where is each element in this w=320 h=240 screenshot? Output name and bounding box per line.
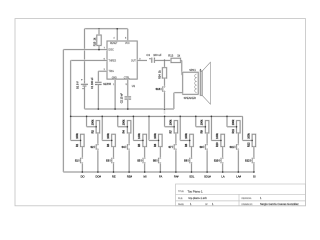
svg-text:RE: RE xyxy=(112,174,116,178)
junction VCC/R15 xyxy=(98,28,100,30)
resistor R15 1k xyxy=(93,29,101,50)
svg-text:FILE:: FILE: xyxy=(178,198,183,200)
svg-text:C3: C3 xyxy=(146,53,150,57)
op-amp U1 NE555 timer body xyxy=(107,41,137,79)
svg-text:PAGE:: PAGE: xyxy=(178,203,184,206)
wire S12 to return bus xyxy=(253,164,255,172)
junction return bus / S10 xyxy=(222,171,224,173)
wire keys bus to R10 xyxy=(211,116,221,140)
junction DISC/R15 xyxy=(98,49,100,51)
potentiometer R2 100k (DO# key) xyxy=(91,119,99,133)
svg-text:100k: 100k xyxy=(91,119,94,125)
junction keys bus / R10 xyxy=(211,116,213,118)
wire R7 to S7 xyxy=(175,133,177,144)
wire R1 to S1 xyxy=(81,147,83,158)
switch S6 xyxy=(153,157,161,163)
wire R6 to S6 xyxy=(159,147,161,158)
wire THRES drop to R1 xyxy=(71,139,81,141)
svg-text:THRES: THRES xyxy=(109,60,117,62)
switch S12 xyxy=(245,157,254,163)
switch S9 xyxy=(200,144,208,150)
wire CTRL pin to C2 xyxy=(127,79,129,97)
svg-text:S11: S11 xyxy=(230,146,235,149)
wire R8 to S8 xyxy=(191,147,193,158)
junction return bus / S2 xyxy=(97,171,99,173)
wire R3 to S3 xyxy=(113,147,115,158)
svg-text:NE555: NE555 xyxy=(103,82,111,86)
wire R10 to S10 xyxy=(222,147,224,158)
wire S9 to return bus xyxy=(206,150,208,172)
svg-text:R12: R12 xyxy=(247,142,250,147)
svg-text:SOL#: SOL# xyxy=(204,174,211,178)
wire keys bus to R2 xyxy=(87,116,97,126)
potentiometer R1 100k (DO key) xyxy=(76,133,84,147)
svg-text:TITLE:: TITLE: xyxy=(178,191,184,193)
wire R2 to S2 xyxy=(97,133,99,144)
wire S11 to return bus xyxy=(237,150,239,172)
ground bus wire xyxy=(85,108,174,110)
wire R13 to speaker xyxy=(181,60,183,75)
svg-text:C1 100 uF: C1 100 uF xyxy=(91,77,94,89)
switch S10 xyxy=(214,157,223,163)
junction return bus / S9 xyxy=(206,171,208,173)
resistor R13 1k xyxy=(168,54,180,63)
junction return bus / S11 xyxy=(237,171,239,173)
svg-text:100k: 100k xyxy=(247,133,250,139)
capacitor C2 10 nF xyxy=(120,93,131,109)
junction keys bus / R6 xyxy=(148,116,150,118)
wire keys bus to R9 xyxy=(196,116,206,126)
junction keys bus / R5 xyxy=(133,116,135,118)
wire R4 to S4 xyxy=(128,133,130,144)
wire S1 to return bus xyxy=(81,164,83,172)
title block xyxy=(176,184,306,206)
wire S6 to return bus xyxy=(159,164,161,172)
svg-text:LA: LA xyxy=(221,174,224,178)
wire R12 to S12 xyxy=(253,147,255,158)
svg-text:SPEAKER: SPEAKER xyxy=(184,96,196,100)
potentiometer R7 100k (FA# key) xyxy=(169,119,177,133)
junction return bus / S6 xyxy=(159,171,161,173)
svg-text:S10: S10 xyxy=(214,160,219,163)
switch S7 xyxy=(168,144,176,150)
switch S8 xyxy=(184,157,192,163)
wire OUT to C3 xyxy=(137,59,147,61)
junction keys bus / R2 xyxy=(86,116,88,118)
capacitor C1 100 uF xyxy=(91,77,102,109)
svg-text:B1 9 V: B1 9 V xyxy=(77,81,80,89)
wire S10 to return bus xyxy=(222,164,224,172)
svg-text:SOL: SOL xyxy=(189,174,195,178)
svg-text:R14: R14 xyxy=(159,74,162,79)
junction THRES/keys bus xyxy=(70,116,72,118)
svg-text:SI: SI xyxy=(253,174,256,178)
wire GND pin to ground bus xyxy=(114,79,116,109)
junction keys bus / R11 xyxy=(226,116,228,118)
keys return bus wire (DISC) xyxy=(63,171,254,173)
potentiometer R6 100k (FA key) xyxy=(154,133,162,147)
switch S3 xyxy=(106,157,114,163)
svg-text:RESET: RESET xyxy=(110,43,118,45)
svg-text:DO#: DO# xyxy=(96,174,102,178)
junction ground/S13 xyxy=(164,108,166,110)
junction return bus / S7 xyxy=(175,171,177,173)
pin stub S13 below ground bus xyxy=(164,109,166,114)
switch S1 xyxy=(75,157,83,163)
switch S11 xyxy=(230,144,239,150)
svg-text:Toy Piano 1: Toy Piano 1 xyxy=(188,190,203,194)
junction keys bus / R7 xyxy=(164,116,166,118)
wire C3 to R13 xyxy=(154,59,171,61)
potentiometer R4 100k (RE# key) xyxy=(123,119,131,133)
potentiometer R3 100k (RE key) xyxy=(107,133,115,147)
switch S13 xyxy=(156,86,165,92)
svg-text:100k: 100k xyxy=(185,133,188,139)
wire S4 to return bus xyxy=(128,150,130,172)
wire TRIG to C1 xyxy=(98,71,107,82)
resistor R14 1k xyxy=(159,60,167,85)
wire keys bus to R3 xyxy=(102,116,112,140)
svg-text:REVISION:: REVISION: xyxy=(242,198,253,200)
svg-text:MI: MI xyxy=(144,174,147,178)
potentiometer R9 100k (SOL# key) xyxy=(201,119,209,133)
svg-text:FA#: FA# xyxy=(174,174,179,178)
wire S7 to return bus xyxy=(175,150,177,172)
junction return bus / S3 xyxy=(113,171,115,173)
wire S13 to ground bus xyxy=(164,92,166,109)
svg-text:100k: 100k xyxy=(154,133,157,139)
junction VCC/RESET xyxy=(116,28,118,30)
potentiometer R8 100k (SOL key) xyxy=(185,133,193,147)
svg-text:100k: 100k xyxy=(138,133,141,139)
svg-text:100k: 100k xyxy=(123,119,126,125)
svg-text:toy-piano-1.sch: toy-piano-1.sch xyxy=(189,196,208,200)
speaker SPK1 8 ohm xyxy=(183,62,211,104)
wire S5 to return bus xyxy=(144,164,146,172)
svg-text:DISC: DISC xyxy=(109,50,115,52)
wire R11 to S11 xyxy=(237,133,239,144)
svg-text:VCC: VCC xyxy=(125,43,130,45)
potentiometer R10 100k (LA key) xyxy=(216,133,224,147)
battery B1 9V xyxy=(77,78,88,109)
switch S5 xyxy=(137,157,145,163)
junction C3/R14 xyxy=(164,60,166,62)
potentiometer R12 100k (SI key) xyxy=(247,133,255,147)
svg-text:C2 10 nF: C2 10 nF xyxy=(120,93,123,104)
junction keys bus / R3 xyxy=(101,116,103,118)
VCC rail wire xyxy=(85,29,128,80)
title block text xyxy=(178,190,299,207)
keys bus wire (THRES) xyxy=(71,116,243,140)
wire S8 to return bus xyxy=(191,164,193,172)
wire keys bus to R7 xyxy=(165,116,175,126)
junction return bus / S1 xyxy=(81,171,83,173)
wire DISC to keys return bus xyxy=(63,50,107,172)
svg-text:100k: 100k xyxy=(107,133,110,139)
junction ground/GND pin xyxy=(114,108,116,110)
svg-text:R13: R13 xyxy=(168,54,173,58)
svg-text:TRIG: TRIG xyxy=(109,71,115,73)
svg-text:S13: S13 xyxy=(156,88,161,91)
potentiometer R11 100k (LA# key) xyxy=(232,119,240,133)
svg-text:100k: 100k xyxy=(232,119,235,125)
svg-text:R15: R15 xyxy=(93,41,96,46)
svg-text:DO: DO xyxy=(81,174,85,178)
wire THRES to keys bus xyxy=(71,60,107,140)
wire keys bus to R8 xyxy=(180,116,190,140)
svg-text:SPK1: SPK1 xyxy=(189,68,196,72)
junction ground/C1 xyxy=(97,108,99,110)
svg-text:100k: 100k xyxy=(76,133,79,139)
potentiometer R5 100k (MI key) xyxy=(138,133,146,147)
svg-text:100k: 100k xyxy=(216,133,219,139)
junction keys bus / R8 xyxy=(179,116,181,118)
wire S3 to return bus xyxy=(113,164,115,172)
junction return bus / S4 xyxy=(128,171,130,173)
switch S2 xyxy=(90,144,98,150)
svg-text:100 uF: 100 uF xyxy=(153,53,162,57)
junction ground/C2 xyxy=(127,108,129,110)
svg-text:100k: 100k xyxy=(169,119,172,125)
svg-text:Sergio García Cuevas González: Sergio García Cuevas González xyxy=(260,202,299,206)
svg-text:RE#: RE# xyxy=(127,174,133,178)
junction keys bus / R9 xyxy=(195,116,197,118)
switch S4 xyxy=(122,144,130,150)
capacitor C3 100 uF xyxy=(146,53,162,63)
svg-text:R11: R11 xyxy=(232,128,235,133)
wire keys bus to R4 xyxy=(118,116,128,126)
wire S2 to return bus xyxy=(97,150,99,172)
junction keys bus / R4 xyxy=(117,116,119,118)
wire speaker return to ground bus xyxy=(174,93,183,109)
wire R9 to S9 xyxy=(206,133,208,144)
wire keys bus to R11 xyxy=(227,116,237,126)
wire keys bus to R5 xyxy=(133,116,143,140)
svg-text:LA#: LA# xyxy=(236,174,241,178)
svg-text:S12: S12 xyxy=(245,160,250,163)
wire keys bus to R12 xyxy=(243,139,253,141)
wire keys bus to R6 xyxy=(149,116,159,140)
drawing frame xyxy=(15,19,306,206)
svg-text:OUT: OUT xyxy=(131,60,136,62)
junction return bus / S5 xyxy=(144,171,146,173)
svg-text:R10: R10 xyxy=(216,142,219,147)
svg-text:100k: 100k xyxy=(201,119,204,125)
junction return bus / S12 xyxy=(253,171,255,173)
svg-text:FA: FA xyxy=(159,174,162,178)
svg-text:U1: U1 xyxy=(132,84,136,88)
junction return bus / S8 xyxy=(191,171,193,173)
svg-text:DRAWN BY:: DRAWN BY: xyxy=(242,203,254,206)
wire R5 to S5 xyxy=(144,147,146,158)
